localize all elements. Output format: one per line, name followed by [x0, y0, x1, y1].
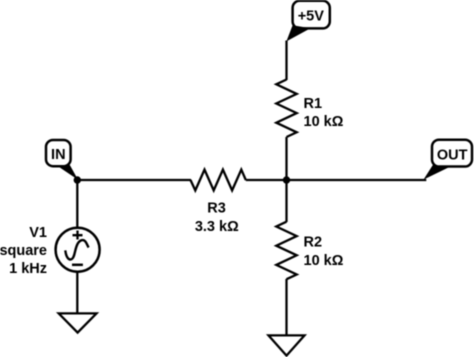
flag OUT [432, 140, 472, 167]
power flag pointer [286, 25, 310, 41]
wire +5V to R1 [285, 41, 287, 81]
wire R3 to OUT [246, 179, 426, 181]
resistor R1 [276, 80, 296, 138]
ground (left) [59, 313, 97, 332]
node IN dot [74, 176, 81, 183]
ground (right) [269, 335, 305, 355]
wire R1 to node [285, 137, 287, 180]
svg-text:1 kHz: 1 kHz [9, 261, 47, 277]
V1 sine waveform [65, 240, 88, 259]
resistor R2 [276, 222, 296, 280]
svg-text:+5V: +5V [298, 8, 325, 24]
flag OUT pointer [424, 164, 451, 179]
wire IN node to V1 [76, 180, 78, 229]
svg-text:10 kΩ: 10 kΩ [304, 253, 344, 269]
svg-text:R2: R2 [304, 235, 323, 251]
V1 minus sign [72, 264, 83, 267]
svg-text:square: square [0, 243, 47, 259]
wire node to R2 [285, 180, 287, 222]
resistor R3 [191, 170, 246, 191]
source V1 body [56, 228, 100, 272]
svg-text:V1: V1 [29, 225, 47, 241]
wire IN node to R3 [77, 179, 191, 181]
svg-text:IN: IN [51, 147, 66, 163]
wire R2 to ground [285, 279, 287, 335]
node junction dot [283, 176, 290, 183]
flag IN [46, 140, 71, 166]
svg-text:10 kΩ: 10 kΩ [304, 114, 344, 130]
svg-text:R3: R3 [207, 201, 226, 217]
svg-text:R1: R1 [304, 96, 323, 112]
svg-text:OUT: OUT [437, 147, 468, 163]
svg-text:3.3 kΩ: 3.3 kΩ [195, 219, 239, 235]
flag IN pointer [56, 163, 79, 180]
V1 plus sign [73, 231, 83, 240]
wire V1 to ground [76, 272, 78, 314]
power flag +5V [293, 1, 330, 29]
